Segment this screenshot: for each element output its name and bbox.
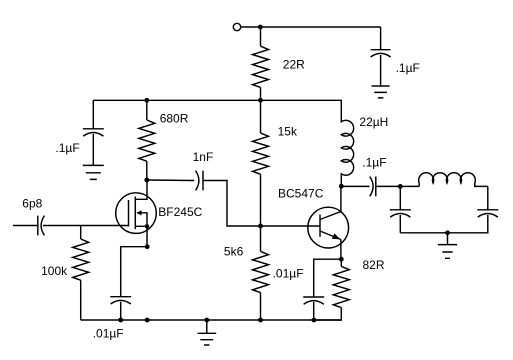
- node rail junction (100R): [145, 318, 150, 323]
- node rail-680R junction: [144, 98, 149, 103]
- node source junction: [145, 244, 150, 249]
- svg-text:82R: 82R: [363, 258, 385, 272]
- node source-substrate junction: [145, 224, 149, 228]
- svg-text:.1µF: .1µF: [396, 61, 420, 75]
- wire top rail: [241, 26, 381, 28]
- node rail junction (ground): [204, 318, 209, 323]
- wire second rail: [93, 99, 341, 101]
- svg-text:.01µF: .01µF: [273, 266, 304, 280]
- resistor 15k: [260, 100, 262, 133]
- transistor J1 BF245C: [116, 193, 157, 234]
- capacitor .01uF (source bypass): [110, 297, 131, 320]
- wire node to 1nF: [147, 179, 194, 182]
- terminal (supply input): [233, 23, 240, 30]
- capacitor .1uF (top right decoupling): [371, 27, 391, 86]
- resistor 22R: [260, 27, 262, 46]
- wire emitter to bypass cap: [314, 259, 342, 297]
- capacitor .1uF (output coupling): [370, 177, 376, 197]
- ground (below left cap): [83, 165, 104, 179]
- resistor 5k6: [260, 226, 262, 251]
- svg-text:BC547C: BC547C: [278, 187, 324, 201]
- inductor tank: [419, 173, 488, 187]
- capacitor .1uF (left bypass): [83, 100, 104, 165]
- svg-text:100k: 100k: [41, 264, 68, 278]
- svg-text:15k: 15k: [278, 125, 298, 139]
- svg-text:.1µF: .1µF: [55, 141, 79, 155]
- node drain junction: [144, 178, 149, 183]
- node rail-22R junction: [258, 98, 263, 103]
- node tank input junction: [398, 184, 403, 189]
- ground (bottom mid): [198, 320, 217, 345]
- svg-text:.01µF: .01µF: [93, 326, 124, 340]
- svg-text:.1µF: .1µF: [362, 156, 386, 170]
- node rail junction (emitter cap): [312, 318, 317, 323]
- capacitor tank right: [400, 210, 498, 233]
- ground (top right): [372, 86, 390, 98]
- wire source to bypass cap: [121, 247, 148, 297]
- svg-text:5k6: 5k6: [224, 245, 244, 259]
- wire 1nF to base column: [203, 181, 320, 227]
- node collector junction: [339, 184, 344, 189]
- node base junction: [258, 224, 263, 229]
- node emitter junction: [339, 257, 344, 262]
- resistor 100k: [80, 226, 82, 240]
- transistor Q1 BC547C: [308, 207, 349, 248]
- resistor 680R: [146, 100, 148, 120]
- node rail junction (source cap): [118, 318, 123, 323]
- svg-text:6p8: 6p8: [22, 196, 42, 210]
- svg-text:BF245C: BF245C: [158, 205, 202, 219]
- wire tank right branch: [487, 186, 489, 209]
- capacitor tank left: [390, 186, 411, 232]
- svg-text:1nF: 1nF: [193, 150, 214, 164]
- node top junction: [258, 25, 263, 30]
- inductor 22uH: [341, 100, 354, 186]
- wire bottom rail: [81, 319, 342, 321]
- wire collector node to output cap: [341, 185, 369, 187]
- capacitor 1nF: [196, 171, 204, 191]
- capacitor 6p8 (input): [13, 216, 129, 236]
- node rail junction (5k6): [258, 318, 263, 323]
- svg-text:22µH: 22µH: [359, 115, 388, 129]
- svg-text:680R: 680R: [160, 112, 189, 126]
- ground (tank): [438, 233, 457, 258]
- node tank bottom junction: [445, 230, 450, 235]
- wire output cap to tank: [376, 185, 419, 187]
- svg-text:22R: 22R: [283, 57, 305, 71]
- capacitor .01uF (emitter bypass): [303, 297, 324, 320]
- resistor 82R: [340, 259, 342, 266]
